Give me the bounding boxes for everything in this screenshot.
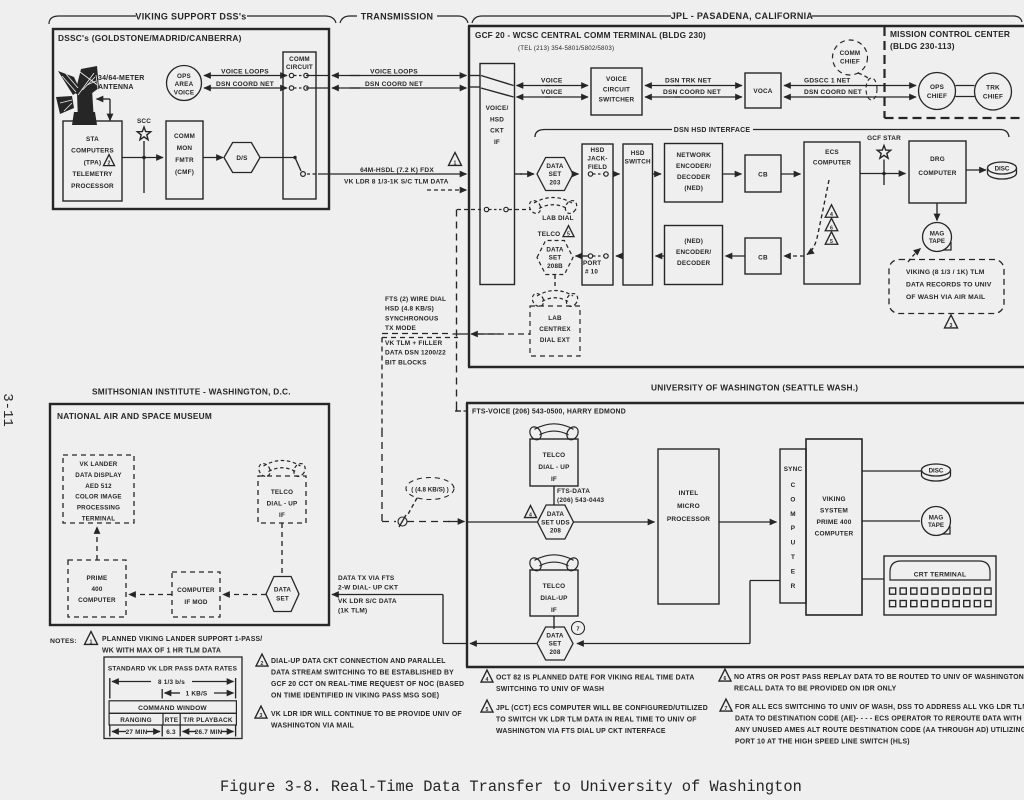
svg-text:COMM: COMM [289, 56, 310, 63]
svg-text:NETWORK: NETWORK [676, 152, 711, 159]
svg-text:DATA DSN 1200/22: DATA DSN 1200/22 [385, 350, 446, 357]
svg-text:E: E [791, 568, 796, 575]
svg-text:ANY UNUSED AMES ALT ROUTE DEST: ANY UNUSED AMES ALT ROUTE DESTINATION CO… [735, 727, 1024, 734]
svg-text:VOCA: VOCA [753, 88, 772, 95]
svg-text:1 KB/S: 1 KB/S [186, 691, 208, 698]
svg-text:VIKING SUPPORT DSS's: VIKING SUPPORT DSS's [135, 12, 246, 22]
svg-text:RANGING: RANGING [120, 717, 152, 724]
svg-text:LAB DIAL: LAB DIAL [542, 215, 573, 222]
svg-text:VK LDR IDR WILL CONTINUE TO BE: VK LDR IDR WILL CONTINUE TO BE PROVIDE U… [271, 711, 462, 718]
svg-text:ENCODER/: ENCODER/ [676, 249, 711, 256]
svg-text:PROCESSOR: PROCESSOR [71, 183, 114, 190]
svg-text:RTE: RTE [165, 717, 179, 724]
svg-text:RECALL DATA TO BE PROVIDED ON: RECALL DATA TO BE PROVIDED ON IDR ONLY [734, 686, 897, 693]
svg-text:COMPUTER: COMPUTER [813, 160, 851, 167]
svg-text:6: 6 [724, 676, 727, 682]
svg-text:# 10: # 10 [585, 269, 598, 276]
svg-text:3: 3 [260, 713, 263, 719]
svg-text:DSN TRK NET: DSN TRK NET [665, 78, 712, 85]
svg-text:NATIONAL AIR AND SPACE MUSEUM: NATIONAL AIR AND SPACE MUSEUM [57, 411, 212, 421]
svg-text:3: 3 [950, 323, 953, 329]
svg-text:SWITCHER: SWITCHER [599, 97, 635, 104]
svg-text:IF: IF [551, 476, 557, 483]
svg-text:DSN COORD NET: DSN COORD NET [365, 81, 423, 88]
svg-text:208: 208 [550, 528, 561, 535]
svg-text:(1K TLM): (1K TLM) [338, 608, 367, 615]
svg-text:HSD: HSD [591, 147, 605, 154]
svg-text:COMMAND WINDOW: COMMAND WINDOW [138, 705, 207, 712]
svg-text:T/R PLAYBACK: T/R PLAYBACK [183, 717, 233, 724]
svg-text:DATA: DATA [546, 633, 564, 640]
svg-text:DATA: DATA [547, 511, 565, 518]
svg-text:SWITCH: SWITCH [625, 159, 651, 166]
svg-text:PROCESSING: PROCESSING [77, 505, 120, 512]
svg-text:FMTR: FMTR [175, 157, 194, 164]
svg-text:DATA: DATA [546, 163, 564, 170]
svg-text:26.7 MIN: 26.7 MIN [195, 729, 223, 736]
svg-text:ECS: ECS [825, 149, 839, 156]
svg-text:( (4.8 KB/S) ): ( (4.8 KB/S) ) [411, 487, 448, 494]
svg-text:27 MIN: 27 MIN [126, 729, 148, 736]
svg-text:FTS (2) WIRE DIAL: FTS (2) WIRE DIAL [385, 296, 446, 303]
svg-text:COMPUTERS: COMPUTERS [71, 148, 114, 155]
svg-text:Figure 3-8. Real-Time Data Tr: Figure 3-8. Real-Time Data Transfer to U… [220, 778, 802, 796]
svg-text:DIAL - UP: DIAL - UP [538, 464, 570, 471]
svg-text:TAPE: TAPE [928, 522, 944, 529]
svg-text:PLANNED VIKING LANDER SUPPORT: PLANNED VIKING LANDER SUPPORT 1-PASS/ [102, 636, 262, 643]
svg-text:VIKING (8 1/3 / 1K) TLM: VIKING (8 1/3 / 1K) TLM [906, 269, 985, 276]
svg-text:GCF 20 CCT ON REAL-TIME REQUES: GCF 20 CCT ON REAL-TIME REQUEST OF NOC (… [271, 681, 464, 688]
svg-text:PRIME: PRIME [87, 575, 108, 582]
svg-text:MAG: MAG [929, 515, 944, 522]
svg-text:COMM: COMM [840, 50, 861, 57]
svg-text:P: P [791, 525, 796, 532]
svg-text:CKT: CKT [490, 128, 504, 135]
svg-text:2: 2 [108, 161, 111, 167]
svg-text:DECODER: DECODER [677, 260, 711, 267]
svg-text:ENCODER/: ENCODER/ [676, 163, 711, 170]
svg-text:TELCO: TELCO [271, 489, 293, 496]
svg-text:7: 7 [725, 706, 728, 712]
svg-text:VK LANDER: VK LANDER [80, 461, 118, 468]
svg-text:NO ATRS OR POST PASS REPLAY DA: NO ATRS OR POST PASS REPLAY DATA TO BE R… [734, 674, 1024, 681]
svg-text:C: C [791, 482, 796, 489]
svg-text:HSD: HSD [631, 150, 645, 157]
svg-text:SYSTEM: SYSTEM [820, 508, 848, 515]
svg-text:DATA TX VIA FTS: DATA TX VIA FTS [338, 575, 395, 582]
svg-text:STA: STA [86, 136, 99, 143]
svg-text:TRANSMISSION: TRANSMISSION [361, 12, 434, 22]
svg-text:CHIEF: CHIEF [840, 59, 860, 66]
svg-text:DATA STREAM SWITCHING TO BE ES: DATA STREAM SWITCHING TO BE ESTABLISHED … [271, 670, 454, 677]
svg-text:OF WASH VIA AIR MAIL: OF WASH VIA AIR MAIL [906, 294, 985, 301]
svg-text:203: 203 [549, 179, 560, 186]
svg-text:ANTENNA: ANTENNA [98, 84, 134, 91]
svg-text:8 1/3 b/s: 8 1/3 b/s [158, 679, 185, 686]
svg-text:CHIEF: CHIEF [927, 93, 947, 100]
svg-text:LAB: LAB [548, 315, 562, 322]
svg-text:MAG: MAG [930, 231, 945, 238]
svg-text:COMM: COMM [174, 133, 195, 140]
svg-text:(NED): (NED) [684, 238, 703, 245]
svg-text:STANDARD VK LDR PASS DATA RATE: STANDARD VK LDR PASS DATA RATES [108, 666, 238, 673]
svg-text:DATA RECORDS TO UNIV: DATA RECORDS TO UNIV [906, 282, 992, 289]
svg-text:VOICE/: VOICE/ [486, 105, 509, 112]
svg-text:VK LDR S/C DATA: VK LDR S/C DATA [338, 598, 397, 605]
svg-text:DSN COORD NET: DSN COORD NET [216, 81, 274, 88]
svg-text:O: O [790, 496, 795, 503]
svg-text:COMPUTER: COMPUTER [177, 587, 215, 594]
svg-text:AED 512: AED 512 [85, 483, 112, 490]
svg-text:PROCESSOR: PROCESSOR [667, 516, 710, 523]
svg-text:DATA TO DESTINATION CODE (AE)-: DATA TO DESTINATION CODE (AE)- - - - ECS… [735, 716, 1022, 723]
svg-text:FOR ALL ECS SWITCHING TO UNIV: FOR ALL ECS SWITCHING TO UNIV OF WASH, D… [735, 704, 1024, 711]
svg-text:DISC: DISC [995, 165, 1010, 172]
svg-text:TRK: TRK [986, 85, 1000, 92]
svg-text:SET UDS: SET UDS [541, 519, 570, 526]
svg-text:DIAL-UP DATA CKT CONNECTION AN: DIAL-UP DATA CKT CONNECTION AND PARALLEL [271, 658, 446, 665]
svg-text:GCF 20 - WCSC CENTRAL COMM TE: GCF 20 - WCSC CENTRAL COMM TERMINAL (BLD… [475, 31, 706, 40]
svg-text:VOICE: VOICE [606, 76, 627, 83]
svg-text:4: 4 [486, 677, 489, 683]
svg-text:SYNC: SYNC [784, 466, 803, 473]
svg-text:1: 1 [454, 160, 457, 166]
svg-text:COLOR IMAGE: COLOR IMAGE [75, 494, 122, 501]
svg-text:R: R [791, 583, 796, 590]
svg-text:OPS: OPS [177, 73, 191, 80]
svg-text:VOICE: VOICE [174, 89, 195, 96]
svg-text:CB: CB [758, 172, 768, 179]
svg-text:PORT 10 AT THE HIGH SPEED LINE: PORT 10 AT THE HIGH SPEED LINE SWITCH (H… [735, 739, 910, 746]
svg-text:DISC: DISC [929, 467, 944, 474]
svg-text:INTEL: INTEL [679, 490, 699, 497]
svg-text:ON TIME IDENTIFIED IN VIKING P: ON TIME IDENTIFIED IN VIKING PASS MSG SO… [271, 693, 439, 700]
svg-text:6.3: 6.3 [166, 729, 176, 736]
svg-text:COMPUTER: COMPUTER [918, 170, 956, 177]
svg-text:DSN HSD INTERFACE: DSN HSD INTERFACE [674, 127, 751, 134]
svg-text:FIELD: FIELD [588, 164, 607, 171]
svg-text:IF: IF [279, 512, 285, 519]
svg-text:AREA: AREA [175, 81, 194, 88]
svg-text:(NED): (NED) [684, 185, 703, 192]
svg-text:GDSCC 1 NET: GDSCC 1 NET [804, 78, 851, 85]
svg-text:2: 2 [261, 661, 264, 667]
svg-text:CIRCUIT: CIRCUIT [603, 86, 630, 93]
svg-text:DSN COORD NET: DSN COORD NET [663, 89, 721, 96]
svg-text:IF MOD: IF MOD [184, 599, 207, 606]
svg-text:JPL - PASADENA, CALIFORNIA: JPL - PASADENA, CALIFORNIA [671, 11, 814, 21]
svg-text:T: T [791, 554, 795, 561]
svg-text:BIT BLOCKS: BIT BLOCKS [385, 359, 427, 366]
svg-text:SYNCHRONOUS: SYNCHRONOUS [385, 315, 439, 322]
svg-text:COMPUTER: COMPUTER [815, 531, 854, 538]
svg-text:208B: 208B [547, 263, 563, 270]
svg-text:FTS-DATA: FTS-DATA [557, 488, 590, 495]
svg-text:UNIVERSITY OF WASHINGTON (SEAT: UNIVERSITY OF WASHINGTON (SEATTLE WASH.) [651, 383, 858, 393]
svg-text:(TPA): (TPA) [84, 159, 102, 166]
svg-text:TELCO: TELCO [538, 231, 561, 238]
svg-text:FTS-VOICE (206) 543-0500, HARR: FTS-VOICE (206) 543-0500, HARRY EDMOND [472, 409, 626, 416]
svg-text:OPS: OPS [930, 84, 945, 91]
svg-text:TELCO: TELCO [543, 452, 566, 459]
svg-text:4: 4 [529, 512, 532, 518]
svg-text:VOICE: VOICE [541, 89, 563, 96]
svg-text:DIAL - UP: DIAL - UP [267, 501, 298, 508]
svg-text:2-W DIAL- UP CKT: 2-W DIAL- UP CKT [338, 585, 398, 592]
svg-text:7: 7 [576, 627, 579, 633]
svg-text:(TEL (213) 354-5801/5802/5803): (TEL (213) 354-5801/5802/5803) [518, 45, 614, 52]
svg-text:DATA: DATA [546, 247, 564, 254]
svg-text:IF: IF [494, 139, 500, 146]
svg-text:VK LDR 8 1/3-1K S/C TLM DATA: VK LDR 8 1/3-1K S/C TLM DATA [344, 179, 449, 186]
svg-text:D/S: D/S [236, 155, 248, 162]
svg-text:PORT: PORT [583, 260, 601, 267]
svg-text:HSD (4.8 KB/S): HSD (4.8 KB/S) [385, 306, 434, 313]
svg-text:SET: SET [549, 171, 562, 178]
svg-text:1: 1 [90, 639, 93, 645]
svg-text:DIAL-UP: DIAL-UP [540, 595, 568, 602]
svg-text:DSSC's (GOLDSTONE/MADRID/CANBE: DSSC's (GOLDSTONE/MADRID/CANBERRA) [58, 33, 242, 43]
svg-text:JPL (CCT) ECS COMPUTER WILL BE: JPL (CCT) ECS COMPUTER WILL BE CONFIGURE… [496, 705, 708, 712]
svg-text:SWITCHING TO UNIV OF WASH: SWITCHING TO UNIV OF WASH [496, 686, 604, 693]
svg-text:CRT TERMINAL: CRT TERMINAL [914, 572, 967, 579]
svg-text:SET: SET [549, 641, 562, 648]
svg-text:IF: IF [551, 607, 557, 614]
svg-text:(206) 543-0443: (206) 543-0443 [557, 497, 604, 504]
svg-text:SMITHSONIAN INSTITUTE - WASHIN: SMITHSONIAN INSTITUTE - WASHINGTON, D.C. [92, 387, 291, 397]
svg-text:DATA: DATA [274, 587, 292, 594]
svg-text:JACK-: JACK- [587, 155, 607, 162]
svg-text:MISSION CONTROL CENTER: MISSION CONTROL CENTER [890, 29, 1010, 39]
svg-text:VOICE LOOPS: VOICE LOOPS [221, 69, 269, 76]
svg-text:PRIME 400: PRIME 400 [816, 519, 851, 526]
svg-text:SET: SET [276, 596, 289, 603]
svg-text:3-11: 3-11 [0, 393, 15, 427]
svg-text:SCC: SCC [137, 118, 151, 125]
svg-text:SET: SET [549, 255, 562, 262]
svg-text:COMPUTER: COMPUTER [78, 597, 116, 604]
svg-text:WK WITH MAX OF 1 HR TLM DATA: WK WITH MAX OF 1 HR TLM DATA [102, 648, 221, 655]
svg-text:TERMINAL: TERMINAL [82, 516, 116, 523]
svg-text:VK TLM + FILLER: VK TLM + FILLER [385, 340, 442, 347]
svg-text:DECODER: DECODER [677, 174, 711, 181]
svg-text:DIAL EXT: DIAL EXT [540, 337, 570, 344]
svg-text:MON: MON [177, 145, 193, 152]
svg-text:5: 5 [486, 707, 489, 713]
svg-text:VIKING: VIKING [822, 496, 846, 503]
svg-text:WASHINGTON VIA MAIL: WASHINGTON VIA MAIL [271, 723, 354, 730]
svg-text:(BLDG 230-113): (BLDG 230-113) [890, 41, 955, 51]
svg-text:OCT 82 IS PLANNED DATE FOR VIK: OCT 82 IS PLANNED DATE FOR VIKING REAL T… [496, 675, 695, 682]
svg-text:NOTES:: NOTES: [50, 638, 77, 645]
svg-text:64M-HSDL (7.2 K) FDX: 64M-HSDL (7.2 K) FDX [360, 167, 434, 174]
svg-text:TO SWITCH VK LDR TLM DATA IN R: TO SWITCH VK LDR TLM DATA IN REAL TIME T… [496, 717, 697, 724]
svg-text:400: 400 [91, 586, 102, 593]
svg-text:WASHINGTON VIA FTS DIAL UP CKT: WASHINGTON VIA FTS DIAL UP CKT INTERFACE [496, 728, 666, 735]
svg-text:GCF STAR: GCF STAR [867, 135, 901, 142]
svg-text:34/64-METER: 34/64-METER [98, 75, 145, 82]
svg-text:208: 208 [549, 649, 560, 656]
svg-text:TELCO: TELCO [543, 583, 566, 590]
svg-text:5: 5 [567, 232, 570, 238]
svg-text:CIRCUIT: CIRCUIT [286, 64, 313, 71]
svg-text:TX MODE: TX MODE [385, 325, 416, 332]
svg-text:TELEMETRY: TELEMETRY [72, 171, 113, 178]
svg-text:(CMF): (CMF) [175, 169, 194, 176]
svg-text:CENTREX: CENTREX [539, 326, 571, 333]
svg-text:CHIEF: CHIEF [983, 94, 1003, 101]
svg-text:DSN COORD NET: DSN COORD NET [804, 89, 862, 96]
svg-text:CB: CB [758, 255, 768, 262]
svg-text:5: 5 [830, 239, 833, 245]
svg-text:DATA DISPLAY: DATA DISPLAY [75, 472, 122, 479]
svg-text:DRG: DRG [930, 156, 945, 163]
svg-text:M: M [790, 511, 796, 518]
svg-text:HSD: HSD [490, 116, 504, 123]
svg-text:TAPE: TAPE [929, 238, 945, 245]
svg-text:VOICE LOOPS: VOICE LOOPS [370, 69, 418, 76]
svg-text:U: U [791, 540, 796, 547]
svg-text:MICRO: MICRO [677, 503, 700, 510]
svg-text:VOICE: VOICE [541, 78, 563, 85]
